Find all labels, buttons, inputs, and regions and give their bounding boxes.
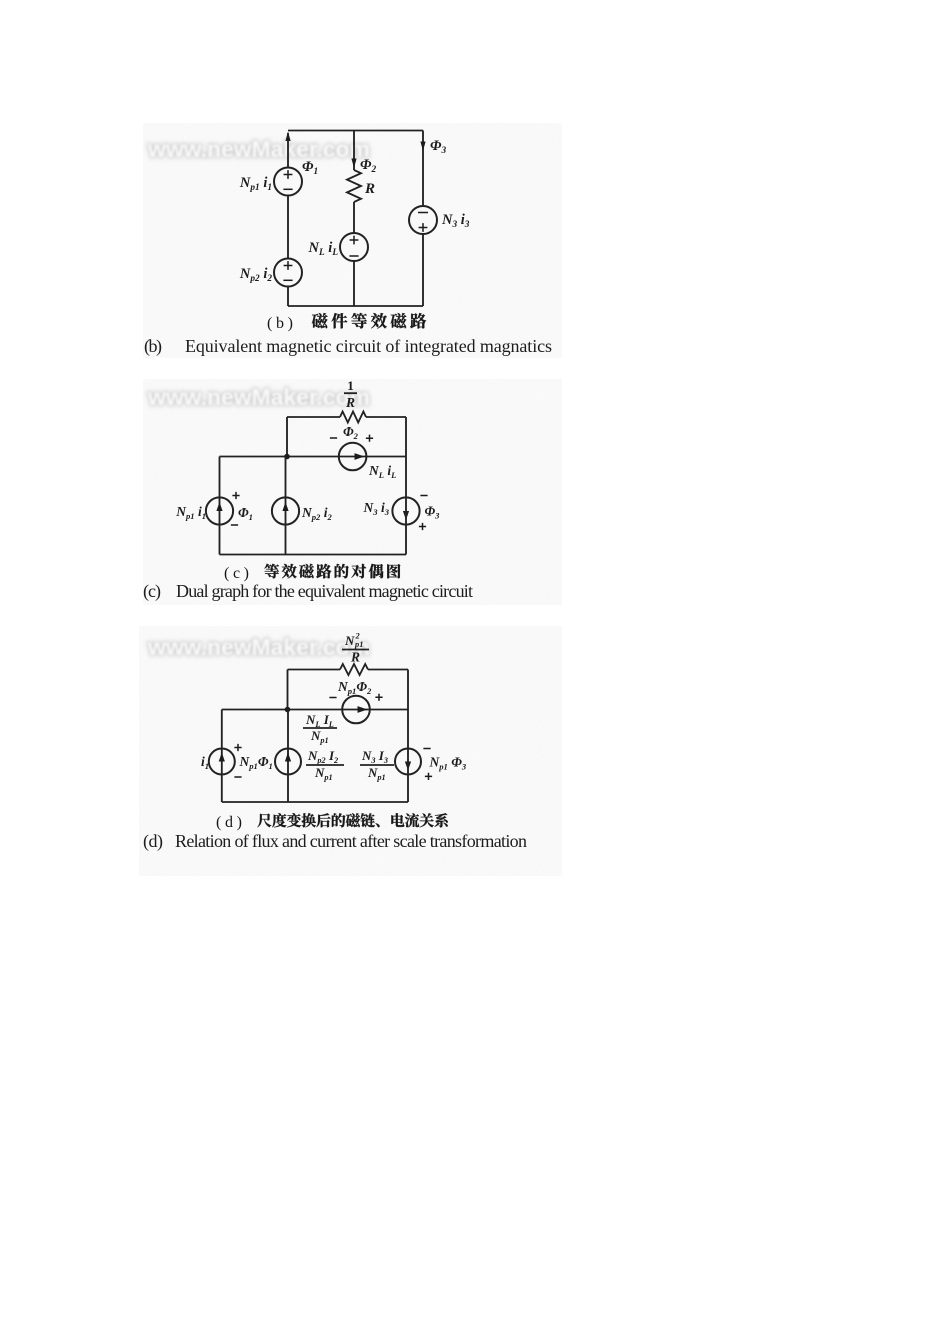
node label Phi3 polarity (c) xyxy=(420,495,427,497)
watermark www.newMaker.com (d) xyxy=(147,634,370,660)
wire top left segment (c) xyxy=(287,416,340,418)
flux arrow Phi1 up xyxy=(285,132,290,142)
node label NP1Phi3 polarity (d) xyxy=(423,748,430,750)
flux source NP1i1 circle (c) xyxy=(206,497,233,524)
scan panel (d) background xyxy=(139,626,562,876)
flux source N3i3 circle (c) xyxy=(392,497,419,524)
svg-text:Relation of flux and current a: Relation of flux and current after scale… xyxy=(175,831,527,851)
flux arrow Phi3 down xyxy=(420,142,425,152)
wire middle branch mid (b) xyxy=(353,202,355,234)
mmf source N3i3 xyxy=(409,206,437,234)
svg-text:www.newMaker.com: www.newMaker.com xyxy=(147,136,370,162)
wire top right segment (d) xyxy=(368,669,408,671)
wire middle branch lower (b) xyxy=(353,261,355,307)
flux source NP1Phi2 circle (d) xyxy=(342,696,370,724)
wire left branch middle (b) xyxy=(287,195,289,259)
wire right branch lower (c) xyxy=(405,499,407,555)
wire rect right vertical (c) xyxy=(405,417,407,499)
svg-text:1: 1 xyxy=(347,378,354,393)
junction node (c) xyxy=(284,454,290,460)
svg-text:(c): (c) xyxy=(143,581,161,602)
svg-text:(b): (b) xyxy=(144,336,162,357)
watermark www.newMaker.com (b) xyxy=(147,136,370,162)
flux source i1 circle (d) xyxy=(209,749,235,775)
wire middle bus left (d) xyxy=(222,709,408,711)
resistor R (b) xyxy=(347,170,361,202)
wire rect right vertical (d) xyxy=(407,670,409,750)
node label Phi1 polarity (c) xyxy=(232,492,239,499)
svg-text:(d): (d) xyxy=(143,831,163,852)
wire top bus (b) xyxy=(288,130,423,132)
wire top left segment (d) xyxy=(288,669,341,671)
svg-text:Dual graph for the equivalent: Dual graph for the equivalent magnetic c… xyxy=(176,581,473,601)
wire bottom bus (c) xyxy=(220,554,407,556)
wire middle branch upper (d) xyxy=(287,710,289,803)
flux source NP2i2 circle (c) xyxy=(272,497,299,524)
wire left branch upper (d) xyxy=(221,710,223,803)
wire top right segment (c) xyxy=(366,416,406,418)
watermark www.newMaker.com (c) xyxy=(147,384,370,410)
mmf source NP1i1 xyxy=(274,168,302,196)
wire rect left vertical (c) xyxy=(286,417,288,457)
svg-text:R: R xyxy=(345,395,355,410)
svg-text:www.newMaker.com: www.newMaker.com xyxy=(147,634,370,660)
svg-text:(b): (b) xyxy=(267,315,293,332)
svg-text:N: N xyxy=(344,633,355,648)
node label NP1Phi1 polarity (d) xyxy=(234,744,241,751)
svg-text:(d): (d) xyxy=(216,814,242,831)
wire right branch lower (b) xyxy=(422,234,424,306)
resistor 1/R (c) xyxy=(340,412,366,423)
svg-text:Np1 Φ3: Np1 Φ3 xyxy=(429,755,467,772)
wire middle bus left (c) xyxy=(220,456,407,458)
mmf source NLiL xyxy=(340,233,368,261)
mmf source NP2i2 xyxy=(274,259,302,287)
wire middle branch upper (b) xyxy=(353,131,355,171)
wire right branch upper (b) xyxy=(422,131,424,207)
wire rect left vertical (d) xyxy=(287,670,289,710)
flux source NP2I2 circle (d) xyxy=(275,749,301,775)
scan panel (c) background xyxy=(143,379,562,605)
svg-text:(c): (c) xyxy=(224,565,249,582)
flux source NP1Phi3 circle (d) xyxy=(395,749,421,775)
flux source Phi2 circle (c) xyxy=(339,443,367,471)
wire right branch lower (d) xyxy=(407,749,409,802)
svg-text:R: R xyxy=(350,650,360,665)
wire left branch lower (b) xyxy=(287,286,289,306)
svg-text:www.newMaker.com: www.newMaker.com xyxy=(147,384,370,410)
junction node (d) xyxy=(285,707,291,713)
wire left branch upper (b) xyxy=(287,133,289,168)
wire left branch upper (c) xyxy=(219,457,221,555)
scan panel (b) background xyxy=(143,123,562,358)
resistor NP1^2/R (d) xyxy=(340,664,368,675)
svg-text:R: R xyxy=(364,181,375,197)
wire middle branch upper (c) xyxy=(285,457,287,555)
svg-text:p1: p1 xyxy=(354,640,363,649)
flux arrow Phi2 down xyxy=(351,159,356,169)
wire bottom bus (d) xyxy=(222,801,408,803)
svg-text:Equivalent magnetic circuit of: Equivalent magnetic circuit of integrate… xyxy=(185,336,552,356)
wire bottom bus (b) xyxy=(288,305,423,307)
svg-text:2: 2 xyxy=(355,632,360,641)
